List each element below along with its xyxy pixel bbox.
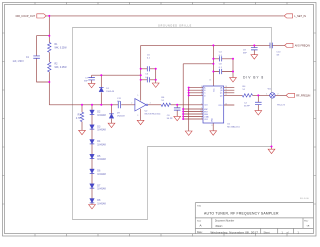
resistor R1 [48,43,51,53]
ground below U2 [137,120,144,124]
svg-text:Document Number: Document Number [215,220,235,223]
ground of U1 pin ties [185,131,192,135]
svg-text:GROUNDED GRILLE: GROUNDED GRILLE [158,24,192,27]
svg-text:2: 2 [131,102,132,104]
diode D7 [90,184,95,188]
svg-text:15: 15 [225,104,227,106]
capacitor C11 [118,101,120,108]
svg-text:AUTO TUNER, RF FREQUENCY SAMPL: AUTO TUNER, RF FREQUENCY SAMPLER [204,212,279,216]
capacitor C5 [147,66,149,71]
svg-text:1N4148: 1N4148 [97,202,106,205]
resistor R3 [80,112,83,121]
port DIR_COUP_OUT [37,14,46,18]
wire C9 stems [253,45,255,54]
svg-text:DIR_COUP_OUT: DIR_COUP_OUT [16,15,36,18]
wire VCC drop to U1 pin16 [212,45,214,86]
shield ground [271,147,273,150]
capacitor C6 [174,108,181,110]
svg-text:56P: 56P [243,53,247,55]
svg-text:Sheet: Sheet [264,231,270,234]
svg-text:1N4148: 1N4148 [97,143,106,146]
diode D3 [90,125,95,129]
ground of U1 GND pin [210,131,217,135]
grounded grille shield outline [73,28,272,220]
wire VCC rail y45 [141,44,285,46]
diode D5 [90,154,95,158]
capacitor C10 [270,43,272,49]
inverter gate U2 [135,99,146,111]
ground below C6 [174,116,181,120]
wire VCC corner drop to gate [140,45,142,100]
wire R3 stems [81,105,83,131]
wire C4 row [213,58,233,60]
wire bypass ground rail 1 [155,69,157,83]
wire diode chain spine [91,105,93,205]
wire C1 bottom branch [37,58,50,82]
port L_NET_IN [284,14,292,18]
svg-text:4: 4 [150,102,151,104]
svg-text:L_NET_IN: L_NET_IN [294,15,306,18]
wire lower-left pin stubs [183,109,203,119]
ground below R3 [79,130,86,134]
wire gate ground stem [140,109,142,120]
wire C6 stems [176,105,178,117]
diode D6 [90,169,95,173]
ground below C7 [88,83,95,87]
svg-text:1nF, 1.5KV: 1nF, 1.5KV [13,61,25,63]
svg-text:AVG FREQ/N: AVG FREQ/N [295,45,310,48]
ground below C2 [255,111,262,115]
svg-text:1N4148: 1N4148 [97,158,106,161]
ground bypass rail 1 [152,83,159,87]
wire C2 stems [257,95,259,110]
svg-text:56P: 56P [84,81,88,83]
wire divider vertical [48,16,50,105]
wire QD output to R4 [224,94,243,96]
svg-text:94K, 0.25W: 94K, 0.25W [55,47,68,49]
svg-text:1N4148: 1N4148 [117,116,125,118]
capacitor C1 [33,56,40,58]
svg-text:94K, 0.25W: 94K, 0.25W [55,67,68,69]
svg-text:Wednesday, November 08, 2017: Wednesday, November 08, 2017 [211,230,259,234]
svg-text:MC74AC161: MC74AC161 [227,126,240,129]
svg-text:11: 11 [225,94,227,96]
svg-text:5: 5 [137,95,138,97]
resistor R4 [242,94,252,97]
wire U1 right stubs QA QB QC RCO [224,88,235,105]
port AVG FREQ/N [285,43,293,47]
capacitor C7 [88,78,95,80]
wire U1 GND pin stem [212,123,214,131]
wire D1 stems [100,75,102,105]
svg-text:1: 1 [201,118,202,120]
wire top net DIR_COUP_OUT to L_NET_IN [46,15,284,17]
ground below D9 [108,123,115,127]
svg-text:1N4148: 1N4148 [97,188,106,191]
svg-text:1N4148: 1N4148 [97,173,106,176]
svg-text:1N4148: 1N4148 [97,129,106,132]
svg-text:9: 9 [201,113,202,115]
wire R6 to U1 CLK [171,104,203,106]
IC U1 MC74AC161 body [203,86,224,123]
wire R4 to W1 [253,94,270,96]
svg-text:DIV BY 8: DIV BY 8 [243,75,264,79]
wire W1 to RF_FREQ/N port [275,94,286,96]
svg-text:RF_FREQ/N: RF_FREQ/N [296,95,310,98]
diode D9 [109,113,114,115]
svg-text:RG-174: RG-174 [277,104,285,106]
ground bypass rail 2 [230,78,237,82]
svg-text:1: 1 [266,93,267,95]
capacitor C8 [219,69,221,74]
port RF_FREQ/N [286,93,294,97]
diode D8 [90,199,95,203]
svg-text:3: 3 [137,115,138,117]
diode D4 [90,140,95,144]
junction dots [48,15,50,17]
wire signal bus to gate [49,104,135,106]
svg-text:A: A [200,224,202,228]
svg-text:4.7K: 4.7K [76,118,81,120]
capacitor C4 [219,56,221,61]
svg-text:Date:: Date: [197,231,203,234]
svg-text:<R: <R [307,225,310,228]
svg-text:8: 8 [211,125,212,127]
wire C1 top branch [37,36,50,56]
wire VCC tie corner [183,64,213,119]
capacitor C9 [251,48,258,50]
svg-text:R.L.S.GL: R.L.S.GL [300,198,310,200]
svg-text:56 PF: 56 PF [167,118,173,120]
svg-text:MC74VHC1G14: MC74VHC1G14 [145,113,162,115]
wire D9 stems [111,105,113,123]
svg-text:2: 2 [201,103,202,105]
wire gate output to R6 [148,104,161,106]
svg-text:2: 2 [277,93,278,95]
diode D1 [99,86,104,88]
svg-text:1N4148: 1N4148 [106,91,114,93]
resistor R6 [161,103,170,106]
ground below diode chain [89,205,96,209]
svg-text:56 PF: 56 PF [244,106,250,108]
diode D2 [90,110,95,114]
svg-text:16: 16 [209,79,211,81]
svg-text:6: 6 [201,94,202,96]
wire C7 stem [91,75,93,83]
capacitor C2 [255,102,262,104]
capacitor C3 [147,77,149,82]
feedthrough W1 [270,93,275,98]
ground below C9 [251,55,258,59]
wire C8 row [213,71,233,73]
svg-text:<Doc>: <Doc> [215,224,223,228]
svg-text:1N: 1N [276,55,279,57]
wire C3 row [141,79,156,81]
svg-text:1N4148: 1N4148 [97,114,106,117]
title block frame [195,203,313,234]
node shield-ground junction [271,146,273,148]
wire A-D pin tie to ground [189,88,203,131]
wire C5 row [141,68,156,70]
wire bypass ground rail 2 [232,59,234,78]
resistor R2 [48,62,51,72]
wire VCC rail y75 [92,74,141,76]
